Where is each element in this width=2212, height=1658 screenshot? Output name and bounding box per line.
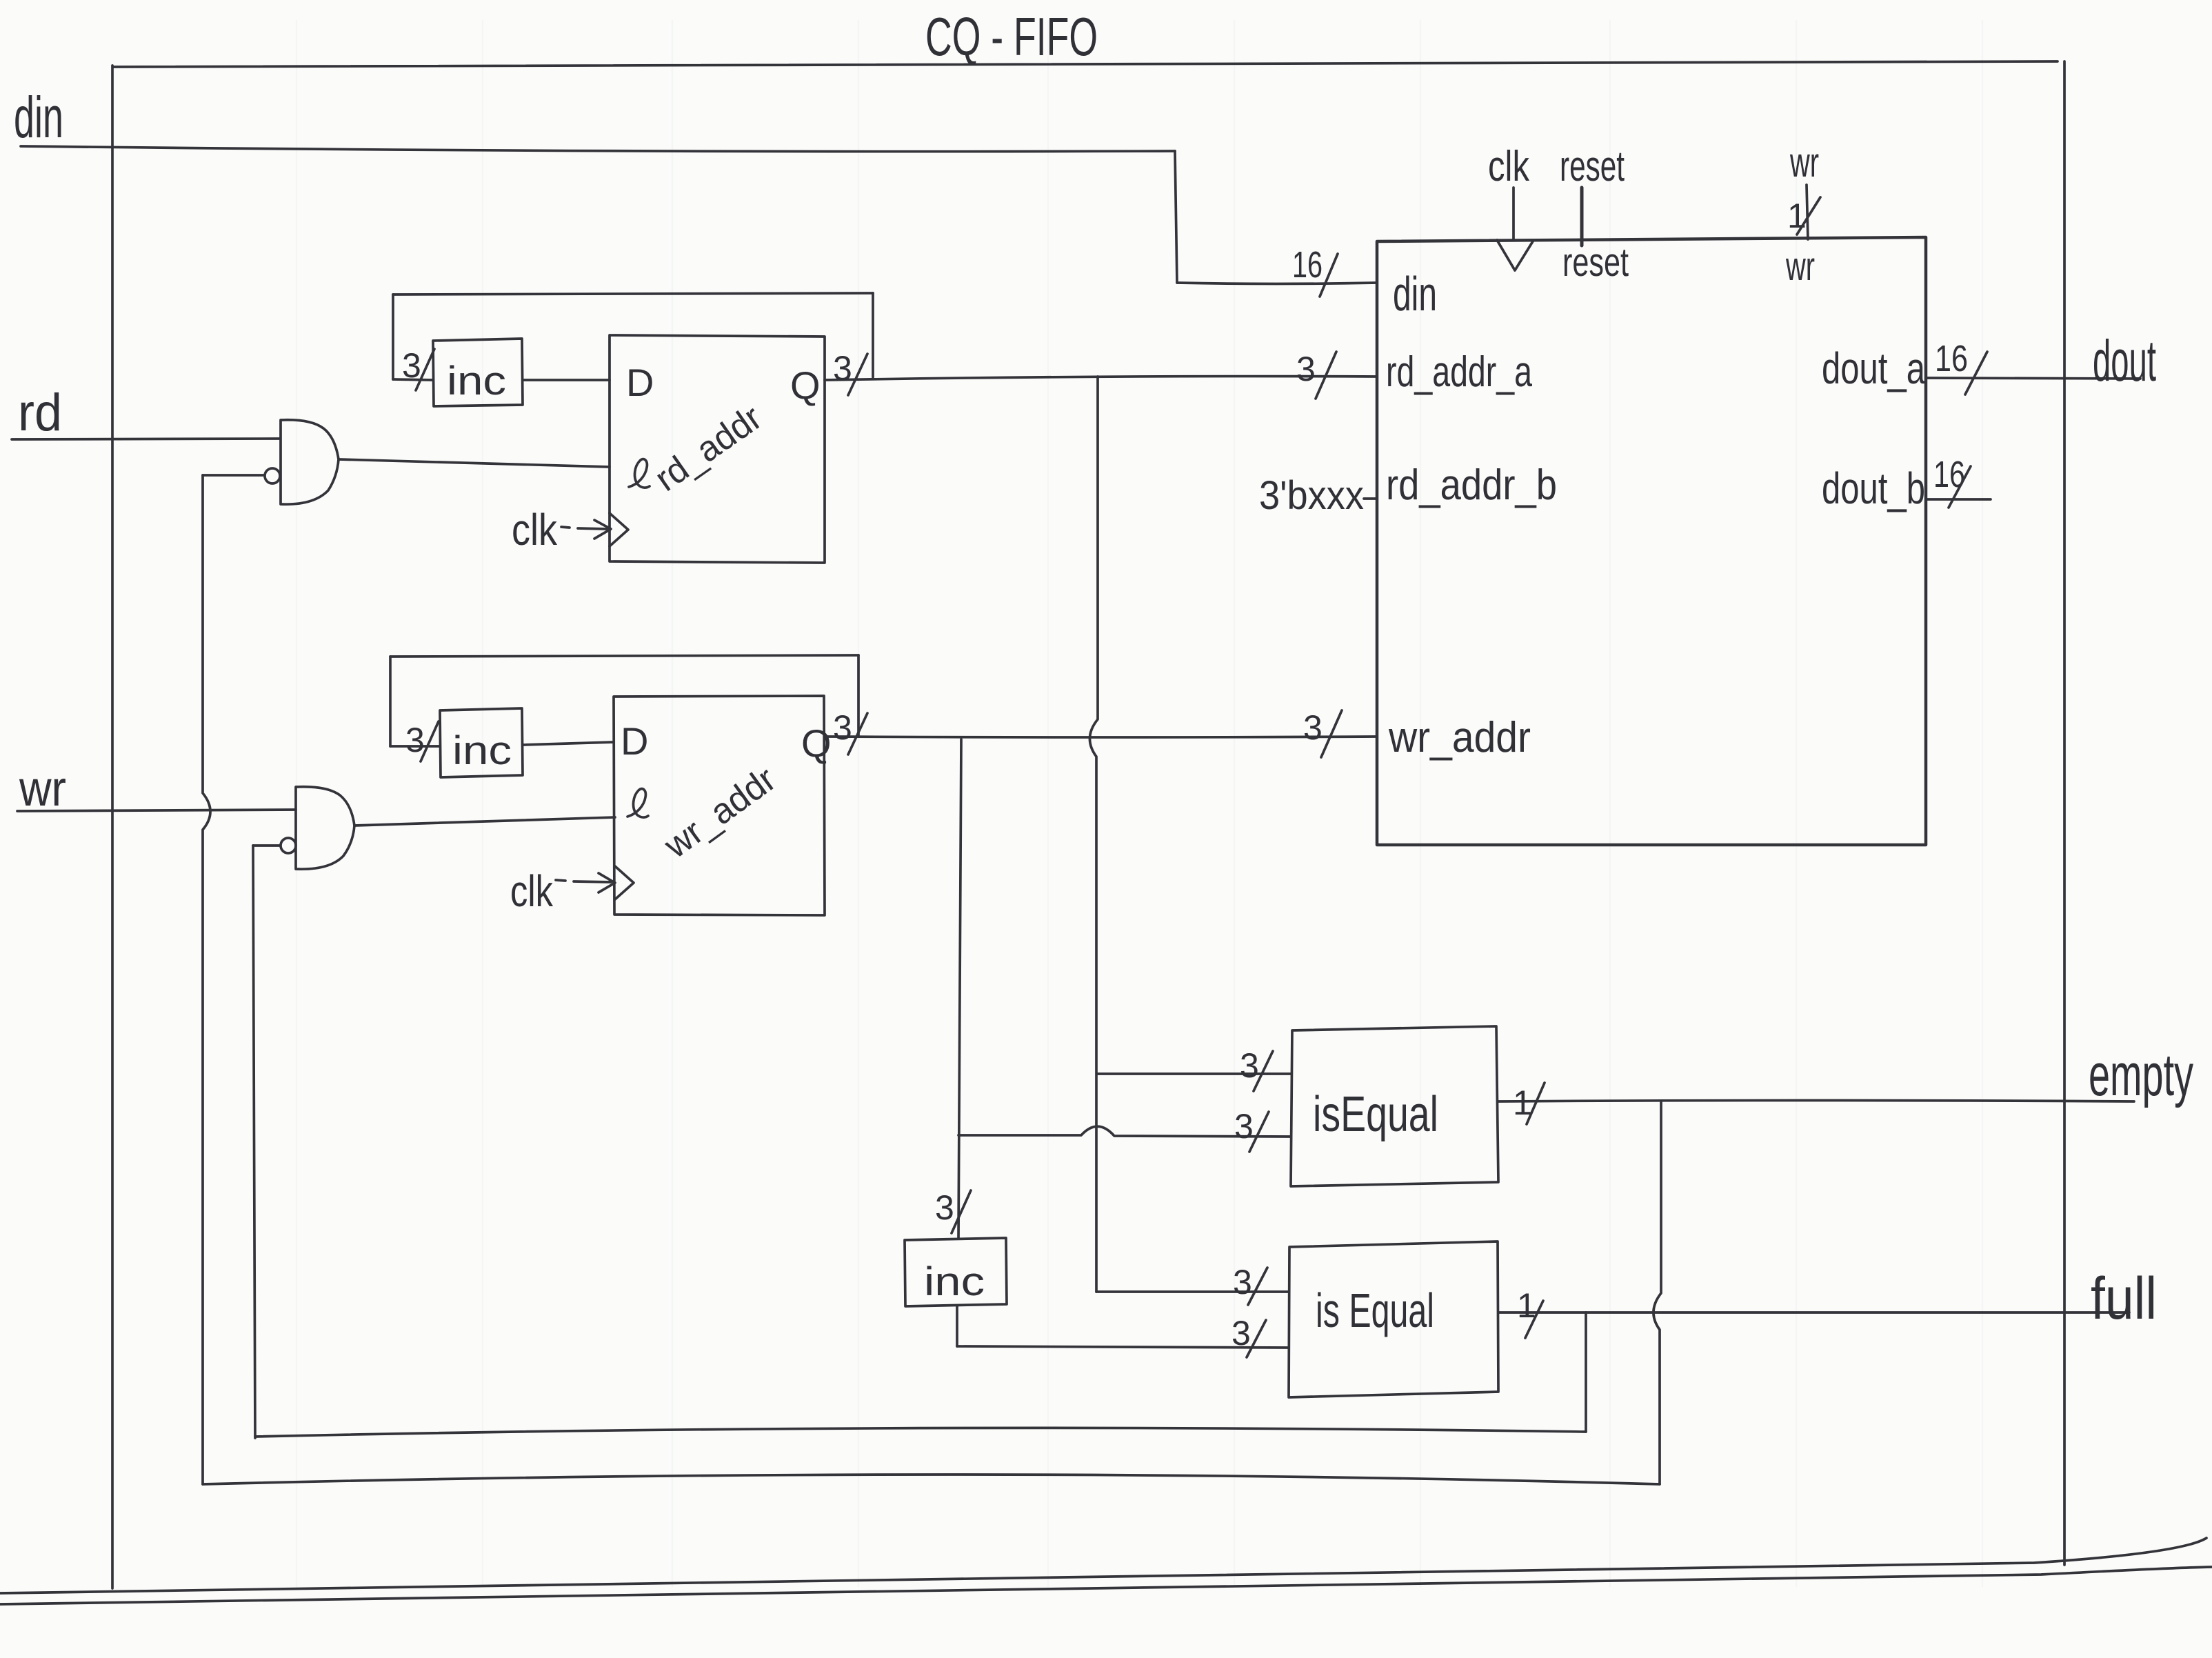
node din (input label) xyxy=(14,85,63,150)
clock wedge wr_addr xyxy=(615,866,634,899)
node rd (input label) xyxy=(18,383,62,442)
register rd_addr feedback loop left xyxy=(392,294,394,379)
svg-text:D: D xyxy=(626,361,654,404)
register wr_addr feedback loop top xyxy=(390,655,858,657)
wire loop to inc2 xyxy=(390,745,439,748)
node empty (output label) xyxy=(2089,1042,2193,1108)
bubble on rd gate lower input xyxy=(265,468,280,483)
node dout (output label) xyxy=(2093,328,2156,393)
wire full output xyxy=(1498,1312,2129,1312)
gate rd enable NAND (AND with inverted input) xyxy=(281,420,339,504)
svg-text:16: 16 xyxy=(1292,244,1323,286)
wire empty feedback horizontal xyxy=(203,1475,1660,1484)
svg-text:empty: empty xyxy=(2089,1042,2193,1108)
node clk (memory top label) xyxy=(1488,143,1530,190)
svg-text:wr_addr: wr_addr xyxy=(1388,714,1531,761)
svg-text:CQ - FIFO: CQ - FIFO xyxy=(925,6,1098,67)
pin label 3/ isEqual2 in1 xyxy=(1233,1263,1267,1305)
svg-text:full: full xyxy=(2091,1266,2157,1332)
comparator isEqual U_empty xyxy=(1291,1026,1498,1186)
svg-text:reset: reset xyxy=(1562,240,1629,285)
svg-text:3: 3 xyxy=(833,349,852,388)
clock wedge rd_addr xyxy=(610,513,628,546)
bubble on wr gate lower input xyxy=(281,838,296,853)
svg-text:inc: inc xyxy=(924,1259,985,1304)
pin label 3/ before memory rd_addr_a xyxy=(1296,350,1336,399)
svg-text:rd_addr_a: rd_addr_a xyxy=(1386,348,1532,396)
svg-text:din: din xyxy=(1393,267,1437,321)
pin label 16/ on dout_a xyxy=(1935,338,1987,394)
wire full feedback vertical xyxy=(1585,1312,1587,1432)
inc block INC3 xyxy=(905,1238,1007,1306)
svg-text:3: 3 xyxy=(1296,350,1316,388)
svg-text:3: 3 xyxy=(935,1188,954,1227)
wire dout_a output xyxy=(1926,378,2140,379)
faint paper ruling xyxy=(296,21,1982,1586)
svg-text:clk: clk xyxy=(510,866,554,916)
wire wr input xyxy=(17,810,296,811)
page bottom edge line 1 xyxy=(0,1538,2206,1593)
comparator isEqual U_full xyxy=(1289,1241,1498,1397)
wire loop to inc1 xyxy=(393,379,433,380)
svg-text:isEqual: isEqual xyxy=(1313,1087,1438,1142)
wire rd_addr Q output to memory rd_addr_a xyxy=(825,377,1377,380)
memory block RAM xyxy=(1377,237,1926,845)
svg-text:3: 3 xyxy=(1231,1314,1251,1352)
wire empty output xyxy=(1498,1101,2134,1102)
svg-text:reset: reset xyxy=(1560,143,1625,190)
wire vertical B wr value down xyxy=(958,739,961,1239)
outer frame left edge xyxy=(112,66,113,1588)
wire rd value to isEqual2 input1 xyxy=(1096,1290,1289,1293)
wire din step down xyxy=(1175,151,1177,283)
svg-text:inc: inc xyxy=(452,728,512,773)
wire clk arrow to wr_addr xyxy=(556,873,615,892)
wire wr gate bubble input xyxy=(253,844,280,847)
pin label 3/ after wr_addr Q xyxy=(833,708,867,755)
svg-text:3: 3 xyxy=(402,346,421,385)
wire vertical A rd value down (hops wr wire) xyxy=(1089,377,1098,1292)
svg-text:rd: rd xyxy=(18,383,62,442)
wire empty feedback vertical (hops full wire) xyxy=(1653,1101,1661,1484)
pin label 3/ isEqual1 in2 xyxy=(1234,1107,1269,1152)
pin label e (enable) on rd_addr xyxy=(629,459,650,488)
wire clk arrow to rd_addr xyxy=(561,520,611,539)
svg-text:dout_a: dout_a xyxy=(1822,343,1925,393)
node wr (memory top label) xyxy=(1789,139,1819,186)
outer frame top edge xyxy=(114,61,2058,67)
outer frame right edge xyxy=(2064,61,2065,1565)
svg-text:3'bxxx: 3'bxxx xyxy=(1259,473,1364,518)
svg-text:D: D xyxy=(621,719,648,763)
wire inc3 to isEqual2 input2 xyxy=(957,1346,1289,1348)
node wr (input label) xyxy=(19,761,66,817)
wire rd value to isEqual1 input1 xyxy=(1097,1072,1291,1075)
node full (output label) xyxy=(2091,1266,2157,1332)
svg-text:din: din xyxy=(14,85,63,150)
svg-text:wr: wr xyxy=(1785,244,1815,289)
wire inc1 to rd_addr D xyxy=(523,379,610,381)
svg-text:16: 16 xyxy=(1935,338,1968,379)
svg-text:rd_addr_b: rd_addr_b xyxy=(1386,461,1557,509)
svg-text:dout: dout xyxy=(2093,328,2156,393)
pin label 3/ after rd_addr Q xyxy=(833,349,867,395)
pin label 1/ empty xyxy=(1513,1083,1545,1124)
pin label 3/ before memory wr_addr xyxy=(1303,708,1342,757)
pin label 3/ at inc1 input xyxy=(402,346,434,390)
pin label 16/ on din xyxy=(1292,244,1338,297)
wire dout_b stub xyxy=(1926,498,1991,501)
pin label 3/ at inc2 input xyxy=(405,721,439,761)
page bottom edge line 2 xyxy=(0,1567,2212,1604)
wire wr value to isEqual1 input2 (hops vertical A) xyxy=(958,1126,1291,1137)
register wr_addr feedback loop right xyxy=(857,655,860,736)
register rd_addr feedback loop top xyxy=(393,293,873,294)
svg-text:Q: Q xyxy=(801,721,832,765)
svg-text:is Equal: is Equal xyxy=(1316,1284,1434,1337)
pin label 16/ on dout_b xyxy=(1933,454,1971,508)
svg-text:wr: wr xyxy=(19,761,66,817)
clk label for wr_addr xyxy=(510,866,554,916)
wire rd input xyxy=(12,439,280,439)
wire inc2 to wr_addr D xyxy=(523,742,614,745)
svg-text:3: 3 xyxy=(1303,708,1323,747)
wire inc3 output down xyxy=(956,1306,958,1346)
register rd_addr feedback loop right xyxy=(872,293,874,377)
gate wr enable NAND xyxy=(296,787,354,869)
node reset (memory top label) xyxy=(1560,143,1625,190)
svg-text:3: 3 xyxy=(405,721,425,759)
svg-text:3: 3 xyxy=(833,708,852,747)
wire rd gate bubble input xyxy=(203,474,264,477)
wire wr_addr Q output to memory wr_addr xyxy=(825,737,1377,737)
wire din into memory xyxy=(1177,283,1377,284)
clk label for rd_addr xyxy=(512,505,558,555)
wire rd gate output to rd_addr e xyxy=(339,459,610,467)
pin label 3/ isEqual2 in2 xyxy=(1231,1314,1266,1357)
register rd_addr block xyxy=(610,335,825,563)
wire din horizontal xyxy=(21,146,1175,152)
svg-text:clk: clk xyxy=(512,505,558,555)
wire wr gate output to wr_addr e xyxy=(354,817,615,826)
svg-text:inc: inc xyxy=(447,359,506,403)
title CQ-FIFO xyxy=(925,6,1098,67)
svg-text:16: 16 xyxy=(1933,454,1965,495)
register wr_addr feedback loop left xyxy=(389,657,392,746)
pin label e (enable) on wr_addr xyxy=(627,789,648,817)
pin label 3/ isEqual1 in1 xyxy=(1240,1046,1273,1091)
wire clk into memory with arrowhead xyxy=(1497,188,1533,270)
svg-text:3: 3 xyxy=(1234,1107,1254,1146)
pin label 1/ on wr xyxy=(1787,197,1820,235)
wire full feedback horizontal xyxy=(255,1428,1586,1437)
wire full feedback up to wr gate xyxy=(253,846,255,1438)
wire empty feedback up to rd gate (hops wr wire) xyxy=(203,475,210,1484)
svg-text:clk: clk xyxy=(1488,143,1530,190)
value label 3'bxxx on rd_addr_b xyxy=(1259,473,1377,518)
pin label 1/ full xyxy=(1517,1286,1543,1338)
svg-text:1: 1 xyxy=(1787,197,1807,235)
svg-text:Q: Q xyxy=(790,363,821,407)
pin label 3/ at inc3 input xyxy=(935,1188,971,1233)
svg-text:wr: wr xyxy=(1789,139,1819,186)
svg-text:3: 3 xyxy=(1233,1263,1252,1301)
register wr_addr block xyxy=(614,696,832,915)
svg-text:dout_b: dout_b xyxy=(1822,463,1925,513)
wire wr into memory xyxy=(1807,185,1808,239)
svg-text:3: 3 xyxy=(1240,1046,1259,1085)
wire reset into memory xyxy=(1580,188,1584,246)
inc block INC2 xyxy=(440,708,523,777)
inc block INC1 xyxy=(433,339,523,406)
